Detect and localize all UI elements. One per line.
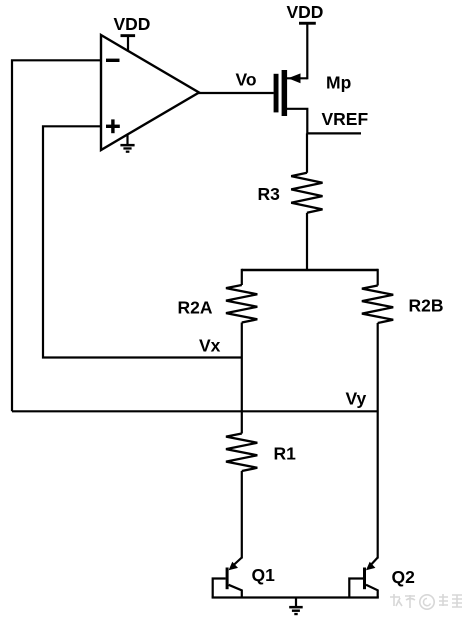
transistor Mp (PMOS) (274, 74, 279, 113)
wire R1 to Q1 emitter (241, 471, 243, 559)
svg-text:Q2: Q2 (392, 567, 416, 587)
svg-text:Mp: Mp (326, 73, 351, 93)
op-amp minus input marking (106, 59, 120, 62)
resistor R2B (362, 286, 393, 324)
resistor R3 (291, 173, 322, 213)
wire Mp drain to R3 (306, 133, 308, 172)
node VREF (307, 132, 361, 134)
svg-text:R2B: R2B (409, 296, 444, 316)
wire rail to R2A (241, 269, 243, 285)
svg-text:R1: R1 (274, 444, 297, 464)
wire from op-amp plus input, down to Vx row (43, 126, 242, 357)
ground at op-amp (126, 135, 128, 145)
transistor Q1 (PNP, diode-connected) (232, 558, 242, 568)
transistor Q2 (PNP, diode-connected) (369, 558, 378, 568)
wire Vy row (12, 410, 378, 412)
wire Vx down to R1 (241, 358, 243, 434)
svg-text:VREF: VREF (322, 109, 369, 129)
resistor R2A (226, 285, 257, 323)
power VDD symbol at Mp (299, 22, 316, 25)
wire R2B down through Vy to Q2 emitter (377, 323, 379, 559)
svg-text:Vy: Vy (346, 389, 367, 409)
wire from op-amp minus input, down left side to Vy row (12, 60, 101, 411)
svg-text:Q1: Q1 (252, 565, 276, 585)
wire R3 to top rail (306, 213, 308, 270)
wire rail to R2B (377, 269, 379, 286)
svg-text:Vo: Vo (236, 70, 257, 90)
svg-text:VDD: VDD (114, 14, 151, 34)
wire top rail (242, 269, 378, 271)
ground at bottom rail (295, 598, 297, 607)
resistor R1 (226, 434, 257, 472)
svg-text:VDD: VDD (287, 2, 324, 22)
svg-text:R2A: R2A (178, 298, 213, 318)
wire op-amp output to Mp gate (198, 92, 274, 94)
svg-text:R3: R3 (258, 184, 281, 204)
watermark (faint gray) (390, 594, 462, 609)
op-amp U1 (101, 35, 199, 150)
op-amp plus input marking (106, 125, 120, 128)
svg-text:Vx: Vx (199, 336, 221, 356)
power VDD symbol at op-amp (127, 36, 129, 51)
wire R2A to Vx (241, 323, 243, 358)
wire bottom rail (212, 596, 379, 598)
